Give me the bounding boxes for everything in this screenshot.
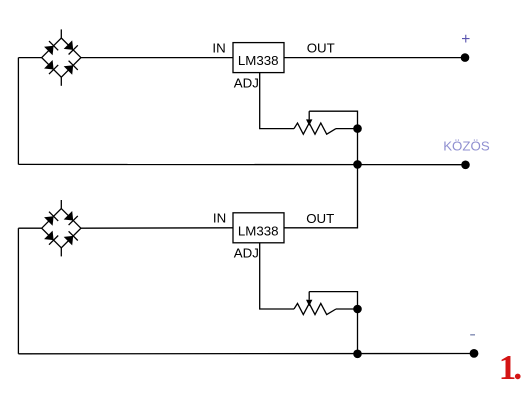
regulator U1 LM338 body xyxy=(233,43,284,73)
bridge rectifier B1 xyxy=(42,29,81,85)
wire: P1 wiper bypass to right junction xyxy=(309,111,357,128)
svg-text:OUT: OUT xyxy=(306,211,334,226)
potentiometer P2 xyxy=(294,292,336,315)
junction J2 (common rail / J1 / U2 OUT) xyxy=(353,160,362,169)
diode B2c (left corner to bottom corner) xyxy=(44,231,58,245)
diode B2d (bottom corner to right corner) xyxy=(64,231,78,245)
svg-text:ADJ: ADJ xyxy=(234,76,259,91)
svg-text:OUT: OUT xyxy=(307,41,335,56)
terminal + (plus output) xyxy=(461,53,470,62)
common rail wire (KOZOS net) xyxy=(18,163,462,165)
bridge B1 AC stub top xyxy=(60,29,62,38)
wire: left rail down from B2 to minus rail xyxy=(17,228,19,354)
junction J1 (P1 / wiper / ADJ net) xyxy=(353,124,362,133)
bridge B1 diamond frame xyxy=(42,38,81,77)
P1 resistor zigzag xyxy=(294,123,336,134)
wire: B1 left corner to left rail xyxy=(18,57,41,59)
wire: B2 right corner to U2 IN xyxy=(81,227,233,229)
wire: P2 wiper bypass to right junction xyxy=(309,292,357,309)
diode B1d (bottom corner to right corner) xyxy=(64,61,78,75)
minus rail wire xyxy=(18,353,470,355)
regulator U2 LM338 body xyxy=(233,213,284,243)
wire: P2 right end to junction xyxy=(336,308,358,310)
wire: U1 OUT to + terminal xyxy=(284,57,462,59)
terminal KOZOS (common output) xyxy=(461,161,470,170)
bridge B2 AC stub bottom xyxy=(60,248,62,257)
wire: left rail down from B1 to common rail xyxy=(17,58,19,165)
wire: B2 left corner to left rail xyxy=(18,227,41,229)
svg-text:LM338: LM338 xyxy=(238,223,279,238)
svg-text:KÖZÖS: KÖZÖS xyxy=(443,139,490,154)
svg-text:IN: IN xyxy=(213,210,226,225)
svg-text:IN: IN xyxy=(212,40,225,55)
diode B2b (top corner to right corner) xyxy=(64,211,78,225)
bridge rectifier B2 xyxy=(42,200,81,256)
diode B2a (left corner to top corner) xyxy=(44,212,58,226)
svg-text:.: . xyxy=(513,348,522,387)
svg-text:ADJ: ADJ xyxy=(234,246,259,261)
wire: B1 right corner to U1 IN xyxy=(81,57,233,59)
P2 wiper arrow xyxy=(306,300,312,306)
wire: U2 ADJ down and right to P2 xyxy=(260,243,294,309)
node label - xyxy=(470,334,475,336)
terminal - (minus output) xyxy=(470,349,479,358)
wire: U1 ADJ down and right to P1 xyxy=(260,73,294,129)
wire: junction J2 down to U2 OUT xyxy=(284,164,358,227)
P1 wiper arrow xyxy=(306,119,312,125)
wire: junction J1 down to junction J2 xyxy=(357,129,359,165)
wire: junction J3 down to junction J4 xyxy=(357,309,359,354)
svg-text:+: + xyxy=(461,31,470,48)
bridge B2 diamond frame xyxy=(42,209,81,248)
bridge B2 AC stub top xyxy=(60,200,62,209)
junction J4 (minus rail / P2) xyxy=(353,350,362,359)
P2 resistor zigzag xyxy=(294,303,336,314)
diode B1a (left corner to top corner) xyxy=(44,41,58,55)
potentiometer P1 xyxy=(294,111,336,134)
diode B1c (left corner to bottom corner) xyxy=(44,60,58,74)
diode B1b (top corner to right corner) xyxy=(64,40,78,54)
svg-text:LM338: LM338 xyxy=(238,53,279,68)
junction J3 (P2 / wiper / ADJ net) xyxy=(353,305,362,314)
wire: P1 right end to junction xyxy=(336,128,358,130)
bridge B1 AC stub bottom xyxy=(60,77,62,86)
